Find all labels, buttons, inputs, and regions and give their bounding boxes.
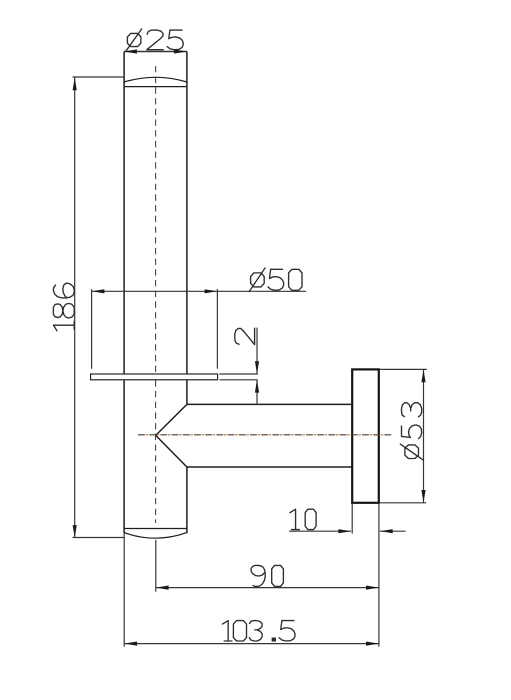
dim Ø50 line [92, 290, 307, 292]
arm bottom edge [187, 466, 352, 468]
dim 2 extension bottom [219, 379, 257, 381]
tube left edge [123, 52, 125, 534]
dim 103.5 right arrow [366, 642, 379, 646]
tube bottom cap arc [124, 533, 187, 539]
dim 186 line [74, 77, 76, 538]
dim 2 upper arrow [255, 361, 259, 374]
dim Ø53 text [400, 403, 423, 460]
dim Ø53 top extension [380, 368, 427, 370]
arm top edge [187, 403, 352, 405]
dim 103.5 right extension (wall face) [378, 504, 380, 647]
dim 2 upper leader [256, 328, 258, 374]
dim 10 plate-left extension [351, 504, 353, 534]
arm chamfer lower [156, 435, 187, 467]
dim 90 extension (tube axis) [155, 540, 157, 592]
dim 2 extension top [219, 373, 257, 375]
dim 103.5 left arrow [124, 642, 137, 646]
dim 90 right arrow [366, 586, 379, 590]
dim Ø50 right arrow [205, 289, 218, 293]
dim 186 bottom extension [73, 537, 125, 539]
tube right edge [186, 52, 188, 534]
dim Ø50 right extension [216, 289, 218, 369]
dim Ø25 line [124, 51, 187, 53]
dim 2 text [235, 328, 255, 344]
dim Ø25 right arrow [174, 49, 187, 53]
dim Ø53 bottom extension [380, 502, 426, 504]
dim Ø50 left arrow [92, 289, 105, 293]
flange disc Ø50 [91, 374, 218, 380]
dim 10 right arrow [380, 529, 393, 533]
dim 186 top arrow [73, 77, 77, 90]
dim Ø53 top arrow [421, 369, 425, 382]
dim 2 lower leader [256, 380, 258, 405]
dim 103.5 line [124, 643, 378, 645]
dim Ø25 text [126, 29, 183, 51]
dim 186 text [53, 283, 74, 330]
dim 10 text [290, 509, 316, 529]
arm chamfer upper [156, 404, 187, 435]
dim Ø50 left extension [91, 289, 93, 369]
dim 186 bottom arrow [73, 525, 77, 538]
dim 90 line [156, 587, 379, 589]
dim 103.5 left extension [123, 534, 125, 647]
dim Ø53 bottom arrow [421, 490, 425, 503]
dim Ø25 left arrow [124, 49, 137, 53]
dim 186 top extension [73, 76, 125, 78]
dim 90 text [251, 565, 283, 586]
tube top cap arc [124, 77, 187, 82]
tube top cap seam [124, 86, 187, 88]
dim 90 left arrow [156, 586, 169, 590]
dim 10 right line [380, 530, 406, 532]
dim 2 lower arrow [255, 380, 259, 393]
dim 103.5 text [222, 621, 295, 641]
horizontal centerline (dark+orange dashed) [138, 434, 392, 436]
vertical centerline (red dashed) [155, 66, 157, 523]
dim Ø53 line [423, 369, 425, 502]
dim 10 left arrow [338, 529, 351, 533]
dim 10 left line [289, 530, 351, 532]
tube bottom seam [124, 528, 187, 530]
wall plate Ø53 [352, 369, 379, 502]
dim Ø50 text [249, 268, 302, 292]
